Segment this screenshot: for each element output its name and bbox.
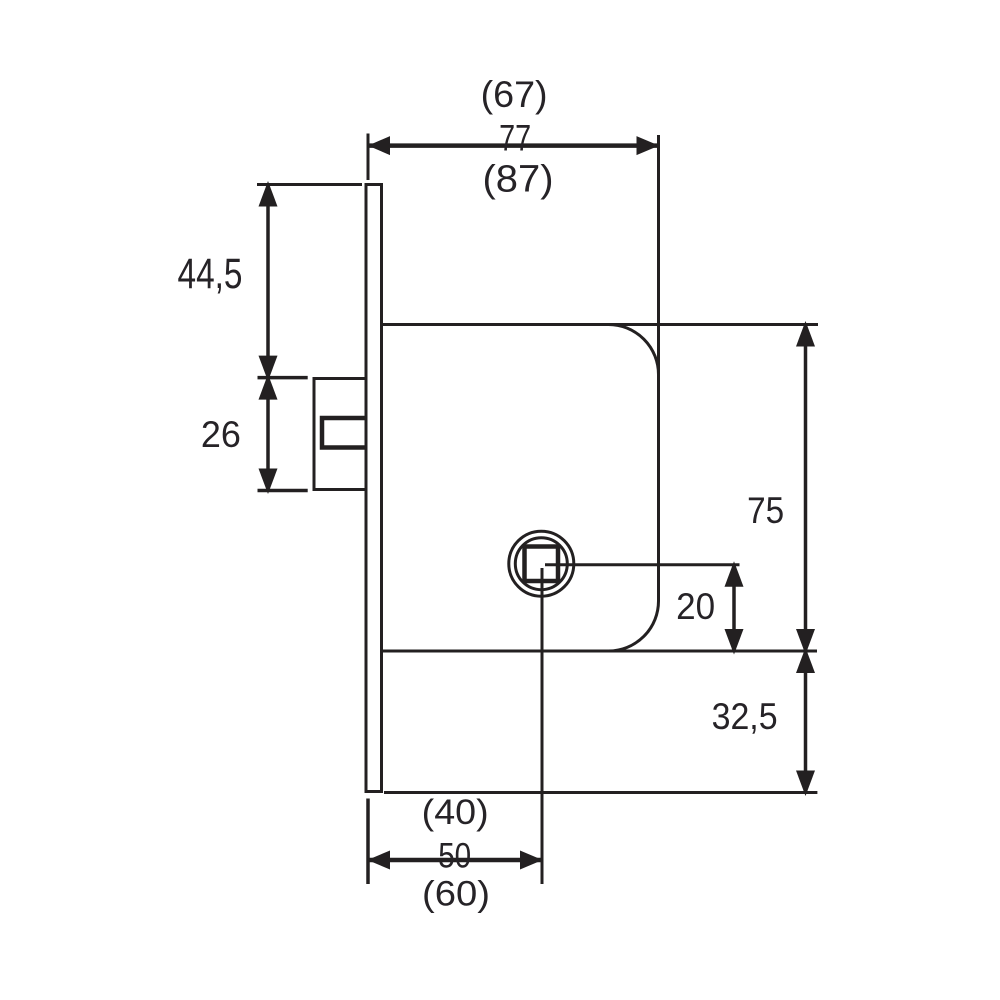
latch inner notch square: [322, 418, 366, 448]
dim 77: right arrowhead: [637, 136, 660, 155]
dim 26: dimension line: [266, 378, 270, 491]
svg-text:(87): (87): [483, 159, 554, 201]
lock body right edge (continues up as extension line for dim 77): [657, 135, 660, 601]
dim 50: dimension line: [368, 858, 542, 863]
faceplate (forend plate): [366, 185, 382, 792]
dim 32,5: bottom extension line (faceplate bottom extended): [384, 791, 817, 794]
svg-text:50: 50: [438, 837, 471, 876]
dim 20: dimension line: [732, 565, 736, 651]
dim 44,5: dimension line: [266, 185, 270, 378]
dim 26: bottom extension tick (latch bottom level): [258, 489, 308, 493]
dim 77: left arrowhead: [368, 136, 390, 155]
dim 75: top arrowhead: [796, 321, 815, 347]
dim 50: right arrowhead: [520, 851, 543, 870]
svg-text:26: 26: [201, 414, 241, 455]
hub inner circle: [515, 538, 567, 590]
dim 77: left extension line: [367, 134, 370, 181]
hub horizontal center line (extension for dim 20): [545, 563, 740, 566]
dim 77: dimension line: [368, 143, 659, 148]
hub square spindle hole: [525, 547, 559, 582]
svg-text:32,5: 32,5: [712, 696, 778, 737]
svg-text:20: 20: [676, 586, 715, 627]
dim 44,5: top arrowhead: [259, 181, 278, 207]
lock body top-right corner arc: [609, 325, 659, 375]
hub outer circle: [509, 531, 574, 596]
latch bolt rectangle: [314, 379, 366, 490]
dim 50: left arrowhead: [368, 851, 391, 870]
dim 32,5: bottom arrowhead: [796, 771, 815, 797]
svg-text:(40): (40): [422, 793, 489, 832]
dim 32,5: dimension line: [804, 651, 808, 793]
svg-text:44,5: 44,5: [178, 250, 243, 298]
lock body top edge (continues right as extension line for dim 75): [381, 323, 818, 326]
lock body bottom-right corner arc: [609, 601, 659, 651]
dim 26: bottom arrowhead: [259, 469, 278, 495]
svg-text:75: 75: [747, 490, 784, 531]
dim 26: top arrowhead: [259, 374, 278, 400]
dim 44,5: top extension line (faceplate top): [257, 183, 362, 186]
dim 75: dimension line: [804, 325, 808, 652]
svg-text:(60): (60): [422, 875, 490, 914]
svg-text:77: 77: [499, 118, 531, 159]
svg-text:(67): (67): [481, 74, 548, 115]
dim 20: bottom arrowhead: [725, 629, 744, 655]
dim 44,5: middle extension tick (latch top level): [258, 376, 308, 380]
dim 32,5: top arrowhead: [796, 648, 815, 674]
dim 50: left extension tick: [366, 799, 370, 885]
dim 75: bottom arrowhead: [796, 629, 815, 655]
dim 44,5: bottom arrowhead: [259, 356, 278, 382]
lock body bottom edge (continues right as extension line for dims 75/32,5): [381, 650, 817, 653]
dim 20: top arrowhead: [725, 561, 744, 587]
hub vertical center line (extension for dim 50): [541, 568, 544, 884]
